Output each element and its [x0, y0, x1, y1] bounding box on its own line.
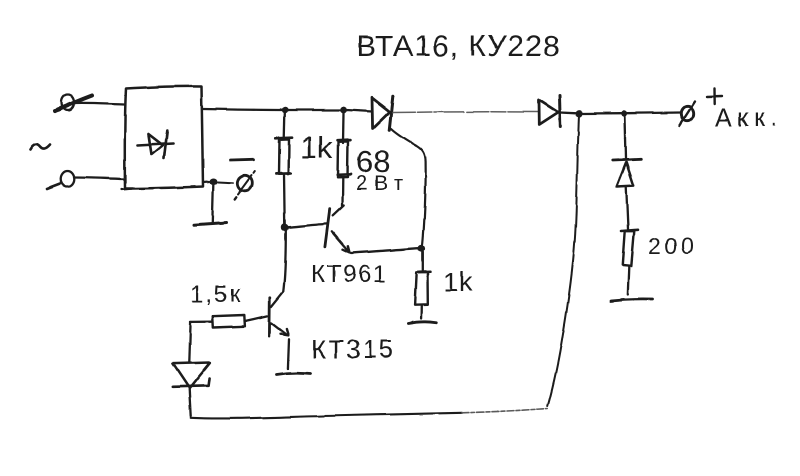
resistor R3 1k	[415, 252, 430, 319]
diode VD3	[613, 117, 641, 230]
wire thyristor to diode (faint)	[393, 111, 538, 114]
minus output terminal	[203, 171, 255, 200]
svg-text:Акк.: Акк.	[715, 104, 783, 132]
wire	[582, 112, 621, 115]
wire diode to node	[561, 111, 577, 114]
svg-text:2Вт: 2Вт	[356, 172, 409, 195]
node VD3 branch	[621, 110, 627, 116]
terminal +Акк	[680, 102, 696, 126]
resistor R4 1,5k	[189, 315, 246, 362]
wire feedback long	[548, 117, 579, 406]
terminal AC1	[55, 95, 92, 112]
diode VD2	[539, 96, 560, 127]
wire thyristor gate	[392, 129, 426, 249]
wire bridge output top rail	[203, 109, 285, 110]
node top of R2	[340, 107, 347, 114]
resistor R1 1k	[276, 113, 292, 224]
label minus	[230, 158, 254, 161]
node top of R1	[282, 107, 288, 113]
wire node to terminal	[627, 111, 681, 114]
svg-text:200: 200	[648, 233, 697, 259]
resistor R2 68	[338, 113, 351, 206]
thyristor VS1	[372, 96, 393, 130]
svg-text:1,5к: 1,5к	[190, 281, 242, 308]
ac symbol ~	[30, 145, 50, 150]
bridge rectifier box	[125, 86, 203, 188]
wire node to thyristor	[346, 110, 372, 112]
transistor KT961	[289, 206, 420, 254]
resistor R5 200	[622, 230, 639, 294]
wire collector KT315 to node	[283, 230, 286, 292]
svg-text:1k: 1k	[443, 267, 474, 297]
svg-text:КТ961: КТ961	[311, 261, 387, 288]
node emitter KT961	[418, 245, 425, 252]
transistor KT315	[246, 292, 289, 369]
bridge diode symbol	[138, 131, 174, 159]
zener diode VD4	[172, 363, 210, 417]
svg-text:КТ315: КТ315	[311, 334, 395, 364]
ground KT315 emitter	[277, 373, 311, 375]
svg-text:1k: 1k	[300, 130, 333, 165]
wire bottom faint	[462, 409, 548, 413]
ground VD3 branch	[611, 299, 654, 301]
wire AC2 to bridge	[74, 178, 124, 180]
wire bottom	[191, 413, 462, 419]
ground bridge output	[194, 185, 227, 225]
node feedback	[575, 110, 582, 117]
node base KT961	[281, 224, 288, 231]
terminal AC2	[47, 171, 74, 189]
ground R3	[408, 322, 437, 324]
label +	[707, 89, 722, 105]
wire AC1 to bridge	[74, 103, 124, 104]
wire	[285, 109, 344, 111]
svg-text:ВТА16, КУ228: ВТА16, КУ228	[356, 30, 560, 63]
